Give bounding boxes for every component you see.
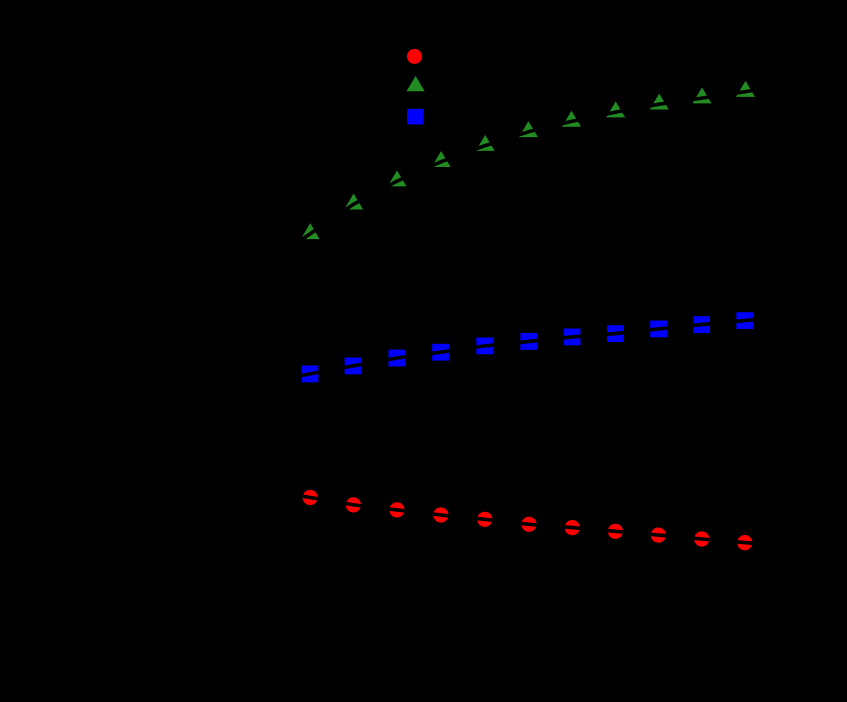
blue series data point 2 (square marker) [345, 358, 362, 375]
red series data point 7 (circle marker) [565, 520, 580, 535]
blue series data point 10 (square marker) [693, 316, 710, 333]
legend marker: blue square series [407, 109, 423, 125]
blue series data point 6 (square marker) [520, 333, 537, 350]
blue series data point 9 (square marker) [650, 321, 667, 338]
red series data point 6 (circle marker) [521, 517, 536, 532]
red series data point 4 (circle marker) [433, 507, 448, 522]
red series data point 3 (circle marker) [389, 502, 404, 517]
green series data point 3 (triangle marker) [388, 170, 407, 186]
blue series connecting line (black) [296, 319, 759, 376]
green series data point 4 (triangle marker) [432, 151, 451, 167]
red series connecting line (black) [296, 495, 758, 544]
legend marker: red circle series [407, 49, 422, 64]
green series data point 6 (triangle marker) [519, 121, 538, 137]
red series data point 2 (circle marker) [346, 497, 361, 512]
red series data point 9 (circle marker) [651, 528, 666, 543]
green series data point 8 (triangle marker) [606, 101, 625, 117]
red series data point 11 (circle marker) [737, 535, 752, 550]
blue series data point 4 (square marker) [432, 344, 449, 361]
blue series data point 3 (square marker) [389, 350, 406, 367]
red series data point 10 (circle marker) [694, 531, 709, 546]
green series data point 1 (triangle marker) [301, 223, 320, 239]
blue series data point 7 (square marker) [564, 329, 581, 346]
blue series data point 1 (square marker) [302, 366, 319, 383]
red series data point 1 (circle marker) [303, 490, 318, 505]
green series connecting line (black) [299, 90, 760, 242]
green series data point 11 (triangle marker) [736, 81, 755, 97]
green series data point 7 (triangle marker) [562, 111, 581, 127]
blue series data point 8 (square marker) [607, 325, 624, 342]
red series data point 8 (circle marker) [608, 524, 623, 539]
green series data point 2 (triangle marker) [344, 194, 363, 210]
legend marker: green triangle series [407, 76, 425, 91]
blue series data point 5 (square marker) [476, 338, 493, 355]
blue series data point 11 (square marker) [736, 312, 753, 329]
green series data point 5 (triangle marker) [476, 135, 495, 151]
green series data point 10 (triangle marker) [693, 87, 712, 103]
red series data point 5 (circle marker) [477, 512, 492, 527]
green series data point 9 (triangle marker) [650, 94, 669, 110]
